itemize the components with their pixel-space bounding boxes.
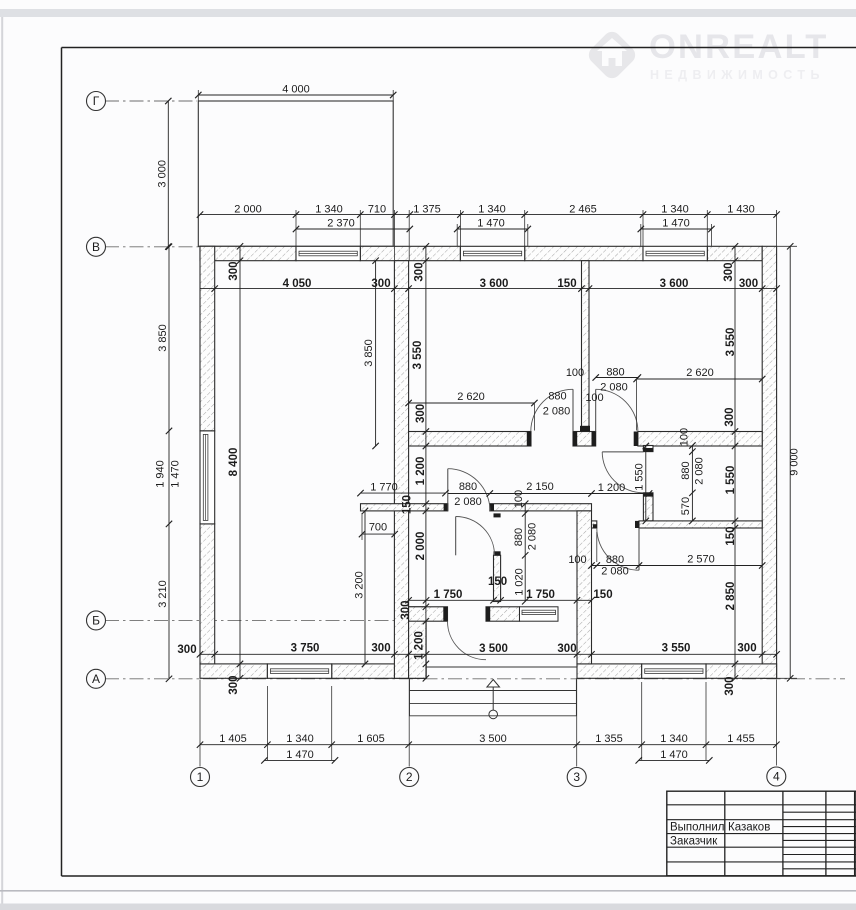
svg-text:3 550: 3 550: [725, 328, 737, 357]
exterior wall left segment 2: [200, 524, 215, 664]
interior thin wall between bedrooms: [582, 261, 590, 432]
title block table: [667, 791, 856, 876]
svg-text:4 050: 4 050: [283, 278, 312, 290]
svg-text:2 465: 2 465: [569, 203, 597, 215]
bedroom2 left wall V4: [577, 511, 592, 664]
svg-text:2 080: 2 080: [454, 496, 482, 508]
door jamb D7 right: [486, 607, 490, 621]
interior vertical chain left: [228, 243, 243, 694]
axis Г: [87, 92, 106, 111]
svg-text:1 405: 1 405: [219, 733, 247, 745]
entrance threshold line: [426, 666, 577, 668]
svg-text:НЕДВИЖИМОСТЬ: НЕДВИЖИМОСТЬ: [650, 68, 825, 82]
svg-text:9 000: 9 000: [788, 448, 800, 476]
window W2 top wall: [460, 246, 524, 260]
svg-text:300: 300: [371, 278, 390, 290]
door D3 swing (closet): [602, 452, 643, 493]
vestibule pier block: [409, 607, 427, 679]
door jamb D4 left: [593, 524, 597, 528]
svg-text:3 600: 3 600: [660, 278, 689, 290]
svg-text:300: 300: [557, 643, 576, 655]
svg-text:Выполнил: Выполнил: [670, 822, 725, 834]
svg-text:8 400: 8 400: [228, 448, 240, 477]
axis line А: [105, 678, 845, 680]
svg-text:3 000: 3 000: [156, 160, 168, 188]
window W1 top wall: [296, 246, 360, 260]
svg-text:3 500: 3 500: [479, 733, 507, 745]
svg-text:300: 300: [415, 404, 427, 423]
door jamb D5 left: [444, 504, 448, 511]
dimension 700 kitchen: [359, 521, 398, 537]
dimension chain left side: [154, 244, 181, 682]
dimension 3 000 left: [156, 98, 171, 250]
exterior wall top segment 1: [200, 246, 296, 260]
vestibule wall H4 mid: [486, 607, 520, 621]
door jamb D5 right: [490, 504, 494, 511]
small extension lines: [362, 379, 637, 562]
dimension interior bottom tier: [177, 643, 779, 658]
svg-text:880: 880: [680, 461, 692, 479]
thin wall end cap: [580, 426, 590, 432]
door jamb D6 bottom: [494, 551, 501, 555]
svg-text:150: 150: [557, 278, 576, 290]
svg-text:2 000: 2 000: [415, 532, 427, 561]
svg-text:100: 100: [513, 490, 525, 508]
exterior wall bottom segment 1: [200, 664, 267, 678]
lobby 1 550 dim: [633, 443, 649, 524]
svg-text:А: А: [92, 672, 100, 686]
porch steps: [410, 678, 577, 716]
svg-text:2 000: 2 000: [234, 203, 262, 215]
svg-text:100: 100: [568, 554, 586, 566]
interior vertical chain x425: [400, 243, 429, 681]
svg-text:1 375: 1 375: [413, 203, 441, 215]
dimension 3 850: [363, 258, 379, 450]
bathroom divider wall V2: [494, 555, 501, 601]
door D1 labels: [543, 390, 571, 417]
svg-text:1 470: 1 470: [477, 217, 505, 229]
axis А: [87, 669, 106, 688]
vestibule wall H4 left: [409, 607, 448, 621]
exterior wall top segment 2: [360, 246, 460, 260]
dimension hall tier y493: [448, 481, 653, 497]
svg-text:2 850: 2 850: [725, 582, 737, 611]
window W3 top wall: [643, 246, 707, 260]
svg-text:300: 300: [228, 675, 240, 694]
interior wall V1: [394, 261, 408, 679]
exterior wall bottom segment 3: [577, 664, 642, 678]
svg-text:2 080: 2 080: [601, 565, 629, 577]
svg-text:300: 300: [414, 262, 426, 281]
axis В: [87, 237, 106, 256]
title text Заказчик: [670, 835, 718, 847]
svg-text:300: 300: [177, 644, 196, 656]
dimension chain top tier 1: [197, 203, 780, 217]
bathroom top thin wall 150: [490, 504, 592, 511]
svg-text:3 550: 3 550: [412, 341, 424, 370]
svg-text:3 200: 3 200: [353, 571, 365, 599]
dimension 2 620 room mid top: [405, 391, 537, 406]
window W4 bottom wall: [267, 664, 331, 678]
svg-text:1 750: 1 750: [526, 589, 555, 601]
ONREALT watermark logo: [585, 28, 828, 82]
extension lines top: [198, 90, 776, 261]
svg-text:2 150: 2 150: [526, 481, 554, 493]
svg-text:1 550: 1 550: [633, 463, 645, 491]
exterior wall bottom segment 2: [332, 664, 426, 678]
svg-text:2 080: 2 080: [600, 381, 628, 393]
axis Б: [87, 611, 106, 630]
door jamb D1 right: [573, 432, 577, 447]
page bottom grey band: [0, 904, 856, 910]
interior vertical chain right: [723, 243, 738, 695]
svg-text:700: 700: [369, 521, 387, 533]
door jamb D3 top: [643, 448, 653, 452]
svg-text:1 455: 1 455: [727, 733, 755, 745]
svg-text:1 430: 1 430: [727, 203, 755, 215]
terrace outline: [198, 101, 393, 246]
axis 3: [567, 768, 586, 787]
svg-text:570: 570: [680, 497, 692, 515]
closet vertical dim chain: [678, 428, 705, 524]
extension lines right: [777, 246, 797, 678]
door jamb D1 left: [527, 432, 531, 447]
svg-text:100: 100: [585, 392, 603, 404]
dimension chain bottom exterior: [197, 733, 780, 748]
dimension 3 200: [353, 508, 368, 667]
svg-text:2 080: 2 080: [543, 405, 571, 417]
svg-text:100: 100: [678, 428, 690, 446]
svg-text:150: 150: [402, 495, 414, 514]
svg-text:1 770: 1 770: [370, 481, 398, 493]
svg-text:880: 880: [606, 554, 624, 566]
page bottom grey rule: [0, 890, 856, 892]
svg-text:880: 880: [513, 528, 525, 546]
svg-text:Г: Г: [93, 94, 100, 108]
exterior wall top segment 3: [525, 246, 643, 260]
svg-text:2 570: 2 570: [687, 553, 715, 565]
page left grey edge: [1, 17, 3, 906]
exterior wall right: [762, 246, 776, 678]
svg-text:880: 880: [548, 390, 566, 402]
svg-text:880: 880: [459, 481, 477, 493]
bathroom B door chain: [513, 490, 539, 605]
svg-text:710: 710: [368, 203, 386, 215]
svg-text:1 355: 1 355: [595, 733, 623, 745]
svg-text:100: 100: [566, 367, 584, 379]
svg-text:Казаков: Казаков: [728, 822, 770, 834]
axis 2: [400, 768, 419, 787]
exterior wall top segment 4: [707, 246, 762, 260]
dimension door D2 880: [566, 366, 641, 404]
svg-text:2 370: 2 370: [327, 217, 355, 229]
axis line Г: [105, 100, 197, 102]
svg-text:1 470: 1 470: [662, 217, 690, 229]
svg-text:1 200: 1 200: [598, 482, 626, 494]
svg-text:3 500: 3 500: [479, 643, 508, 655]
svg-text:300: 300: [739, 278, 758, 290]
svg-text:Заказчик: Заказчик: [670, 835, 718, 847]
door jamb D7 left: [443, 607, 447, 621]
svg-text:1 750: 1 750: [434, 589, 463, 601]
axis line Б: [105, 619, 425, 621]
svg-text:1 550: 1 550: [725, 466, 737, 495]
kitchen thin wall 150: [361, 504, 448, 511]
svg-text:2 620: 2 620: [686, 367, 714, 379]
svg-text:1 340: 1 340: [286, 733, 314, 745]
svg-text:2 080: 2 080: [526, 523, 538, 551]
door D2 swing: [596, 389, 638, 431]
svg-text:1: 1: [197, 770, 204, 784]
interior wall H-mid segment 2: [573, 432, 596, 447]
wall H3 main: [639, 521, 762, 528]
svg-text:3 550: 3 550: [662, 643, 691, 655]
title text Выполнил: [670, 822, 725, 834]
svg-text:Б: Б: [92, 614, 100, 628]
svg-text:150: 150: [725, 526, 737, 545]
svg-text:1 020: 1 020: [513, 568, 525, 596]
exterior wall bottom segment 4: [706, 664, 777, 678]
door jamb D2 left: [592, 432, 596, 447]
door D5 label 2080: [454, 496, 482, 508]
window W5 bottom wall: [642, 664, 706, 678]
svg-text:300: 300: [724, 676, 736, 695]
vestibule window: [520, 607, 559, 621]
svg-text:1 470: 1 470: [169, 460, 181, 488]
dimension tier y600 bathrooms: [405, 576, 612, 603]
svg-text:300: 300: [724, 407, 736, 426]
interior wall H-mid segment 3: [638, 432, 762, 447]
svg-text:3 850: 3 850: [157, 324, 169, 352]
entrance arrow marker: [487, 680, 500, 719]
door jamb D3 bottom: [643, 493, 653, 497]
window W6 left wall: [200, 431, 215, 524]
svg-text:150: 150: [488, 576, 507, 588]
svg-text:1 605: 1 605: [357, 733, 385, 745]
svg-text:3 210: 3 210: [157, 580, 169, 608]
svg-text:1 200: 1 200: [415, 457, 427, 486]
wall H3 left stub: [592, 521, 597, 528]
svg-text:1 940: 1 940: [154, 460, 166, 488]
axis 4: [767, 767, 786, 786]
svg-text:1 340: 1 340: [660, 733, 688, 745]
door D7 swing (entrance): [448, 621, 487, 660]
svg-text:2: 2: [406, 770, 413, 784]
dimension top tier 2: [293, 217, 715, 232]
svg-text:4 000: 4 000: [282, 83, 310, 95]
svg-text:1 340: 1 340: [315, 203, 343, 215]
svg-text:3 850: 3 850: [363, 339, 375, 367]
svg-text:В: В: [92, 240, 100, 254]
dimension 1 770 kitchen: [357, 481, 448, 496]
svg-text:4: 4: [773, 770, 780, 784]
dimension 9 000 right: [787, 243, 800, 681]
svg-text:300: 300: [737, 643, 756, 655]
closet wall V3 upper stub: [643, 446, 653, 452]
door jamb D6 top: [494, 513, 501, 517]
door D4 swing (bedroom2): [597, 528, 639, 570]
dimension tier y565: [568, 553, 765, 577]
extension lines bottom: [200, 680, 776, 767]
svg-text:1 470: 1 470: [660, 749, 688, 761]
svg-text:3 600: 3 600: [480, 278, 509, 290]
door D1 swing: [531, 389, 573, 431]
door D6 swing (bathroom B): [456, 517, 495, 556]
svg-text:300: 300: [371, 643, 390, 655]
axis 1: [191, 768, 210, 787]
svg-text:1 340: 1 340: [661, 203, 689, 215]
dimension 4 000 top: [195, 83, 396, 98]
interior wall H-mid segment 1: [409, 432, 531, 447]
dimension interior top tier: [200, 278, 780, 292]
svg-text:2 620: 2 620: [457, 391, 485, 403]
closet wall V3 lower part: [643, 493, 653, 521]
svg-text:1 340: 1 340: [478, 203, 506, 215]
title text Казаков: [728, 822, 770, 834]
dimension 2 620 room right top: [633, 367, 765, 382]
svg-text:1 470: 1 470: [286, 749, 314, 761]
svg-text:880: 880: [606, 366, 624, 378]
svg-text:3 750: 3 750: [291, 643, 320, 655]
svg-text:300: 300: [723, 262, 735, 281]
door jamb D4 right: [635, 521, 639, 528]
svg-text:2 080: 2 080: [693, 457, 705, 485]
dimension bottom tier 2: [261, 749, 712, 764]
svg-text:1 200: 1 200: [414, 631, 426, 660]
svg-text:150: 150: [593, 589, 612, 601]
page top grey band: [0, 9, 856, 17]
axis line В: [105, 246, 199, 248]
door jamb D2 right: [634, 432, 638, 447]
door D5 swing (bathroom A): [448, 469, 490, 511]
exterior wall left segment 1: [200, 246, 215, 431]
svg-text:3: 3: [573, 770, 580, 784]
svg-text:300: 300: [228, 261, 240, 280]
